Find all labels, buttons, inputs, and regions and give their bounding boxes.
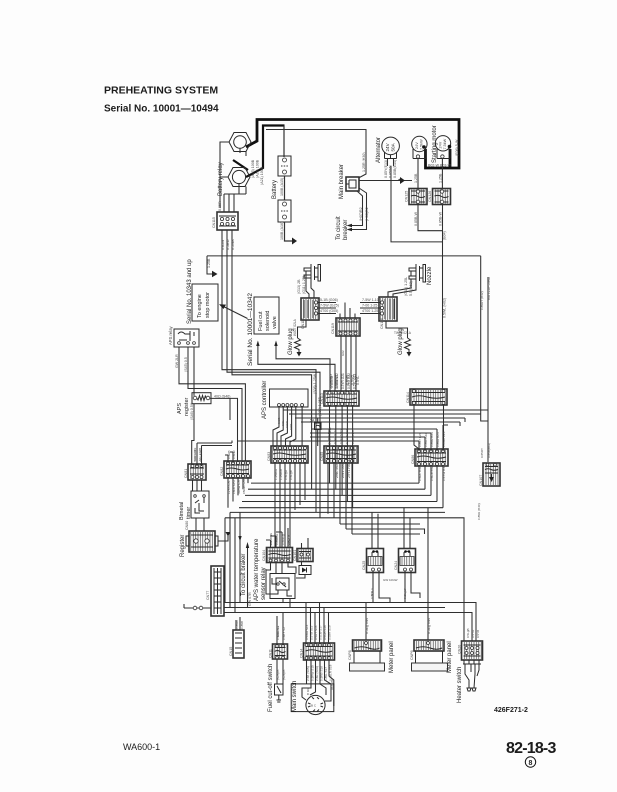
- to circuit breaker arrow bottom: [247, 546, 249, 608]
- svg-text:0.85R B24: 0.85R B24: [436, 432, 440, 447]
- svg-text:CN20: CN20: [458, 645, 462, 654]
- wire CN104 pins to relay: [266, 562, 296, 594]
- svg-text:0.5LW S17: 0.5LW S17: [319, 625, 323, 640]
- annotation arrow to stop motor box: [222, 306, 248, 319]
- svg-text:24V: 24V: [415, 142, 419, 149]
- svg-text:(G11) 1.25L: (G11) 1.25L: [302, 275, 306, 294]
- svg-text:0.85RY: 0.85RY: [480, 448, 484, 458]
- connector CN24 relay: [394, 549, 416, 573]
- svg-text:Meter panel: Meter panel: [447, 641, 453, 673]
- svg-text:7-5W 1-10: 7-5W 1-10: [362, 298, 379, 302]
- wire CN126 down long: [442, 205, 444, 391]
- wire CN117 right pins: [318, 303, 337, 314]
- wire relay to CN115: [224, 194, 246, 212]
- svg-text:(S08) 1.25W: (S08) 1.25W: [313, 373, 317, 394]
- svg-text:Meter panel: Meter panel: [389, 641, 395, 673]
- battery cell 1: [278, 156, 291, 176]
- wire CN116 bottom to glow plug right: [386, 321, 408, 338]
- wire top serial bus into controller zone: [229, 398, 231, 420]
- wire CN86 to CN114 vertical: [419, 466, 443, 508]
- svg-text:Main switch: Main switch: [292, 681, 298, 712]
- svg-text:50A: 50A: [391, 142, 396, 151]
- svg-text:CNP6: CNP6: [410, 650, 414, 660]
- svg-text:CN25: CN25: [362, 561, 366, 570]
- wire CN81 down to bimetal: [193, 480, 202, 491]
- svg-text:GW 07R: GW 07R: [248, 592, 252, 606]
- svg-text:0.5B S14Y: 0.5B S14Y: [351, 429, 355, 444]
- connector CN119: [331, 318, 360, 336]
- bimetal timer: [191, 491, 209, 518]
- wire thick bus battery relay to battery: [246, 126, 285, 178]
- svg-text:0.5WR S14: 0.5WR S14: [305, 624, 309, 640]
- svg-text:7.5kW: 7.5kW: [443, 138, 447, 149]
- svg-text:PREHEATING SYSTEM: PREHEATING SYSTEM: [104, 85, 218, 97]
- connector CN117: [301, 298, 319, 329]
- glow plug right: [405, 338, 412, 357]
- svg-text:To circuit: To circuit: [336, 216, 342, 240]
- svg-text:0.85L B22: 0.85L B22: [424, 433, 428, 447]
- starting motor M2: [435, 136, 451, 159]
- svg-text:(S45) 0.5: (S45) 0.5: [184, 357, 188, 372]
- svg-text:82-18-3: 82-18-3: [506, 740, 556, 757]
- svg-text:APS: APS: [177, 403, 183, 414]
- circled 8: [525, 757, 535, 767]
- svg-text:B C: B C: [311, 704, 317, 708]
- svg-text:1.25B: 1.25B: [438, 173, 442, 183]
- wire between cells: [284, 176, 286, 200]
- svg-text:CN24: CN24: [394, 561, 398, 570]
- connector CN20: [458, 641, 483, 660]
- fuel cut-off switch: [275, 684, 284, 702]
- svg-text:stop motor: stop motor: [205, 292, 211, 318]
- svg-text:1.25WB: 1.25WB: [279, 469, 283, 480]
- svg-text:(S25) B: (S25) B: [276, 670, 280, 681]
- svg-text:CN104: CN104: [262, 550, 266, 561]
- svg-text:Nozzle: Nozzle: [427, 266, 433, 285]
- svg-text:Serial No. 10001—10342: Serial No. 10001—10342: [247, 293, 254, 366]
- wire nozzle left to CN117: [306, 271, 309, 298]
- svg-text:CN119: CN119: [331, 323, 335, 334]
- svg-text:0.85W: 0.85W: [221, 239, 225, 250]
- APS register box: [192, 393, 211, 404]
- svg-text:0.5R: 0.5R: [289, 423, 293, 430]
- svg-text:Register: Register: [180, 535, 186, 557]
- svg-text:0.85BrR: 0.85BrR: [275, 533, 279, 545]
- svg-text:Main breaker: Main breaker: [339, 164, 345, 199]
- svg-text:CN115: CN115: [212, 217, 216, 228]
- svg-text:APS water temperature: APS water temperature: [254, 538, 260, 601]
- svg-text:16RL GrR: 16RL GrR: [232, 479, 236, 494]
- wire battery drop: [283, 126, 285, 158]
- svg-text:To engine: To engine: [197, 294, 203, 318]
- connector CN125: [405, 189, 428, 205]
- connector CN126: [428, 189, 451, 205]
- alternator G1: [382, 137, 400, 158]
- svg-text:CN107: CN107: [479, 475, 483, 486]
- wire CN15 up: [236, 617, 240, 630]
- nozzle left: [304, 264, 321, 282]
- wire battery to ground: [285, 222, 293, 241]
- wire register to ground: [218, 536, 228, 541]
- svg-text:0.85B: 0.85B: [240, 621, 244, 629]
- main breaker MB: [346, 177, 359, 191]
- connector CN113: [320, 391, 359, 406]
- svg-text:0.5YB S15: 0.5YB S15: [310, 625, 314, 640]
- svg-text:0.85R (B40): 0.85R (B40): [477, 503, 481, 520]
- svg-text:0.5W S11Y: 0.5W S11Y: [333, 429, 337, 444]
- svg-text:0.85B(E14): 0.85B(E14): [393, 160, 397, 178]
- wire into CN81 top: [197, 441, 232, 467]
- svg-text:CN80: CN80: [185, 521, 189, 530]
- wire CN116 left pins: [360, 303, 381, 314]
- svg-text:0.85R: 0.85R: [218, 201, 222, 211]
- wire CNP6 riser: [427, 603, 429, 641]
- wire second right vertical: [487, 277, 489, 421]
- meter panel CNP6: [410, 640, 448, 671]
- svg-text:Glow plug: Glow plug: [398, 328, 404, 355]
- svg-text:0.5Y S13Y: 0.5Y S13Y: [345, 429, 349, 444]
- svg-text:CN116: CN116: [380, 318, 384, 329]
- svg-text:(S09) 1.25B: (S09) 1.25B: [318, 396, 322, 416]
- svg-text:(E06) 5-W: (E06) 5-W: [455, 139, 459, 156]
- diode box under CN101: [299, 566, 311, 575]
- to engine stop motor box: [192, 284, 218, 321]
- svg-text:2.5B (S05): 2.5B (S05): [306, 666, 310, 681]
- svg-text:0.5G S10Y: 0.5G S10Y: [339, 429, 343, 444]
- svg-text:0.5Lg GW: 0.5Lg GW: [365, 617, 369, 634]
- svg-text:0.5LgB: 0.5LgB: [289, 470, 293, 480]
- svg-text:Fuel cut-off switch: Fuel cut-off switch: [268, 664, 274, 712]
- svg-text:0.85L S17: 0.85L S17: [324, 667, 328, 681]
- wire nozzle right to CN116: [388, 271, 411, 297]
- connector CN107: [479, 463, 500, 486]
- svg-text:1.25R (H30): 1.25R (H30): [362, 152, 366, 172]
- svg-text:1.25B: 1.25B: [207, 258, 211, 268]
- connector CN82: [220, 461, 251, 478]
- connector CN86: [411, 449, 448, 466]
- wire CN85 verticals down: [328, 463, 352, 534]
- svg-text:(S26) B: (S26) B: [282, 670, 286, 681]
- svg-text:40Ω (S46): 40Ω (S46): [214, 394, 230, 398]
- svg-text:(H08)R2: (H08)R2: [365, 207, 369, 221]
- wire horizontal upper rows right: [238, 410, 489, 441]
- APS controller box: [270, 389, 309, 407]
- svg-text:0.85Y(E13): 0.85Y(E13): [384, 160, 388, 178]
- svg-text:0.85B-W: 0.85B-W: [439, 211, 443, 226]
- fuse 5A: [310, 419, 321, 430]
- svg-text:CN15: CN15: [229, 647, 233, 656]
- svg-text:5-1B (G06): 5-1B (G06): [320, 298, 338, 302]
- svg-text:Bimetal: Bimetal: [179, 502, 185, 520]
- svg-text:S1R L03: S1R L03: [193, 450, 197, 462]
- svg-text:1.25WR: 1.25WR: [274, 468, 278, 480]
- connector CN114: [406, 389, 447, 405]
- wire register down: [192, 404, 194, 464]
- svg-text:CN126: CN126: [428, 191, 432, 202]
- wire CN117 bottom to glow plug: [298, 320, 307, 338]
- svg-text:5.5 (B62): 5.5 (B62): [409, 281, 413, 296]
- wire controller pins down: [273, 407, 302, 447]
- svg-text:GW 2LR: GW 2LR: [175, 354, 179, 368]
- svg-text:0.5WL (H02): 0.5WL (H02): [443, 298, 447, 318]
- svg-text:0.85BrW: 0.85BrW: [269, 533, 273, 545]
- battery cell 2: [278, 200, 291, 222]
- svg-text:0.5RB S16: 0.5RB S16: [320, 666, 324, 681]
- wire bus verticals from above: [225, 512, 240, 566]
- svg-text:timer: timer: [186, 507, 192, 519]
- svg-text:0.5R S12Y: 0.5R S12Y: [327, 429, 331, 444]
- svg-text:0.5RL B31: 0.5RL B31: [418, 466, 422, 481]
- wire CN125 down and join: [418, 205, 443, 231]
- svg-text:GW 10GW: GW 10GW: [383, 578, 398, 582]
- wire register right: [210, 398, 238, 461]
- svg-text:CN81: CN81: [184, 469, 188, 478]
- svg-text:BATTERY 0.85R: BATTERY 0.85R: [487, 276, 491, 300]
- wire CN115 down to center (3 runs): [222, 230, 316, 512]
- svg-text:0.85W: 0.85W: [235, 620, 239, 629]
- battery relay R2 hexagon: [228, 168, 250, 187]
- wire alternator down: [388, 159, 443, 242]
- svg-text:CN82: CN82: [220, 467, 224, 476]
- wire bottom bus lines: [224, 603, 476, 642]
- wire label cluster below CN14: [306, 664, 333, 681]
- svg-text:0.5YL G23: 0.5YL G23: [353, 374, 357, 389]
- wire APS relay leads: [179, 347, 245, 461]
- svg-text:CN86: CN86: [411, 455, 415, 464]
- svg-text:Serial No. 10001—10494: Serial No. 10001—10494: [104, 104, 219, 115]
- wire CN14 down to main switch: [302, 660, 334, 706]
- wire thick bus battery to starting motor: [246, 120, 459, 169]
- svg-text:0.85G B23: 0.85G B23: [430, 432, 434, 447]
- wire vertical bundle to CN14: [306, 603, 329, 644]
- connector CN81: [184, 464, 206, 480]
- nozzle right: [409, 264, 426, 283]
- ground alternator line: [400, 177, 405, 184]
- svg-text:2.5R (S06): 2.5R (S06): [315, 666, 319, 681]
- main switch box: [291, 684, 334, 715]
- svg-text:CN85: CN85: [320, 452, 324, 461]
- svg-text:APS relay: APS relay: [168, 325, 173, 345]
- svg-text:0.85B(B41): 0.85B(B41): [487, 443, 491, 458]
- svg-text:0.5RLg: 0.5RLg: [287, 535, 291, 545]
- APS relay box: [168, 325, 199, 347]
- wire CN113 down bundle: [330, 406, 353, 508]
- wire motor2 to CN126: [441, 158, 443, 188]
- svg-text:Glow plug: Glow plug: [288, 328, 294, 355]
- svg-text:(A24) 100B: (A24) 100B: [256, 159, 260, 178]
- svg-text:2W1 500Y: 2W1 500Y: [341, 461, 345, 478]
- svg-text:(A25) 100B: (A25) 100B: [251, 159, 255, 178]
- connector CN85: [320, 446, 358, 463]
- svg-text:0.85B-W: 0.85B-W: [414, 211, 418, 226]
- wire CN82 down: [228, 478, 248, 508]
- svg-text:(G13) 2B: (G13) 2B: [297, 279, 301, 294]
- svg-text:0.5WB: 0.5WB: [231, 239, 235, 250]
- svg-text:0.85W B25: 0.85W B25: [442, 431, 446, 447]
- svg-text:0.5LgB: 0.5LgB: [466, 628, 470, 638]
- wire CN83 down bundle: [275, 463, 305, 547]
- svg-text:2WL 502Y: 2WL 502Y: [335, 461, 339, 478]
- svg-text:CN11: CN11: [269, 649, 273, 658]
- wire bus right branch down to CN107: [481, 256, 488, 462]
- svg-text:0.5LW: 0.5LW: [232, 450, 236, 459]
- svg-text:0.5RW S15: 0.5RW S15: [311, 665, 315, 681]
- svg-text:Starting motor: Starting motor: [432, 125, 438, 163]
- wire breaker out to ground line: [359, 180, 412, 182]
- svg-text:CN125: CN125: [405, 191, 409, 202]
- connector CN115: [212, 212, 238, 230]
- connector CN104: [262, 548, 293, 563]
- wire thick starting motor 2 stub: [449, 149, 452, 168]
- svg-text:(S46) 0.5Y: (S46) 0.5Y: [190, 402, 194, 420]
- svg-text:0.85W S12: 0.85W S12: [335, 373, 339, 389]
- svg-text:100B (A16): 100B (A16): [280, 222, 284, 240]
- wire arrow B fuel cut: [276, 344, 330, 391]
- wire glow bus over CN119: [340, 303, 355, 319]
- svg-text:0.5YR G21: 0.5YR G21: [341, 373, 345, 389]
- wire relay to bus: [283, 599, 290, 608]
- connector CN83: [267, 446, 308, 463]
- svg-text:To circuit braker: To circuit braker: [241, 554, 247, 596]
- svg-text:12YB GrL: 12YB GrL: [227, 480, 231, 494]
- wire relay left links: [220, 142, 246, 208]
- meter panel CNP8: [348, 640, 385, 671]
- svg-text:0.5BY S2: 0.5BY S2: [282, 627, 286, 640]
- battery relay R2 circle: [232, 170, 245, 183]
- wire breaker to circuit breaker arrows: [352, 188, 367, 230]
- connector CN14: [300, 643, 335, 660]
- svg-text:24V: 24V: [439, 141, 443, 148]
- sensor relay box: [270, 574, 295, 599]
- svg-text:0.5GB B32: 0.5GB B32: [430, 466, 434, 481]
- svg-text:29Y1 R6BY: 29Y1 R6BY: [347, 459, 351, 478]
- wire CN104 tops up: [271, 528, 289, 548]
- svg-text:0.5GB S18: 0.5GB S18: [323, 625, 327, 640]
- wire motor1 to CN125: [417, 158, 419, 188]
- svg-text:B02-W B03-W: B02-W B03-W: [428, 164, 452, 168]
- svg-text:0.5WR S1: 0.5WR S1: [276, 626, 280, 640]
- glow plug left: [295, 338, 302, 357]
- ground battery: [292, 238, 297, 245]
- svg-text:WA600-1: WA600-1: [123, 742, 160, 752]
- svg-text:(A21) 100R: (A21) 100R: [260, 166, 264, 185]
- connector CN116: [379, 297, 397, 329]
- starting motor M1: [412, 136, 427, 158]
- svg-text:31BW GrY: 31BW GrY: [237, 479, 241, 494]
- wire CN77 left stub connector: [184, 607, 211, 609]
- connector CN11: [269, 644, 288, 659]
- svg-text:(H07)R2: (H07)R2: [359, 207, 363, 221]
- svg-text:24V: 24V: [385, 142, 390, 151]
- svg-text:7-5W (G25): 7-5W (G25): [320, 304, 339, 308]
- wire fuse down: [317, 418, 319, 446]
- svg-text:0.5BR S19: 0.5BR S19: [328, 625, 332, 640]
- wire CN25 CN24 bottoms to bus: [373, 571, 420, 603]
- svg-text:solenoid: solenoid: [265, 311, 271, 332]
- svg-text:S1L T04: S1L T04: [199, 450, 203, 462]
- svg-text:100B (A15): 100B (A15): [280, 178, 284, 196]
- svg-text:CN77: CN77: [206, 591, 210, 600]
- wire horizontal bundle rows: [248, 483, 425, 489]
- wire CNP8 riser: [365, 603, 367, 641]
- battery relay R1 circle: [234, 136, 247, 149]
- svg-text:0.5Lg: 0.5Lg: [370, 591, 374, 599]
- wire CN11 down to fuel cutoff switch: [277, 659, 283, 684]
- wire CN119 down to CN113: [341, 336, 356, 391]
- svg-text:0.5Lg GW: 0.5Lg GW: [427, 617, 431, 634]
- svg-text:Heater switch: Heater switch: [457, 667, 463, 703]
- svg-text:G02: G02: [341, 350, 345, 356]
- ground left: [212, 271, 218, 278]
- svg-text:0.5LgW: 0.5LgW: [403, 588, 407, 599]
- svg-text:426F271-2: 426F271-2: [494, 707, 528, 714]
- svg-text:05GW GrB: 05GW GrB: [242, 479, 246, 494]
- svg-text:breaker: breaker: [343, 220, 349, 240]
- svg-text:CN101: CN101: [293, 550, 297, 561]
- svg-text:0.5RB: 0.5RB: [227, 450, 231, 459]
- svg-text:CN83: CN83: [267, 452, 271, 461]
- svg-text:B R1: B R1: [306, 688, 310, 695]
- heater switch glyph: [463, 660, 481, 691]
- svg-text:(B04): (B04): [443, 231, 447, 240]
- wire CN80 up from bimetal: [196, 518, 204, 531]
- connector CN101: [293, 549, 313, 562]
- svg-text:4T00 (G05): 4T00 (G05): [320, 309, 338, 313]
- svg-text:0.85Y B21: 0.85Y B21: [418, 432, 422, 447]
- svg-text:0.5RY S16: 0.5RY S16: [314, 625, 318, 640]
- svg-text:Alternator: Alternator: [376, 137, 382, 163]
- svg-text:0.5YW B33: 0.5YW B33: [442, 465, 446, 481]
- svg-text:Battery: Battery: [272, 180, 278, 199]
- svg-text:CNP8: CNP8: [348, 650, 352, 660]
- svg-text:0.5BW: 0.5BW: [226, 239, 230, 250]
- wire main horizontal bus: [207, 255, 481, 257]
- svg-text:0.5WLg: 0.5WLg: [281, 534, 285, 545]
- svg-text:valve: valve: [272, 316, 278, 329]
- wire right bundle verticals: [427, 508, 429, 640]
- svg-text:CN114: CN114: [406, 392, 410, 403]
- register CN80: [185, 521, 218, 552]
- wire CN82 top feeds: [225, 452, 233, 463]
- svg-text:0.5YB: 0.5YB: [476, 630, 480, 638]
- connector CN25 relay: [362, 549, 384, 573]
- wire bus left end to ground: [207, 256, 212, 274]
- svg-text:0.5YR: 0.5YR: [471, 629, 475, 638]
- wire CN11 up: [277, 613, 283, 645]
- svg-text:0.85RY (B42): 0.85RY (B42): [480, 291, 484, 310]
- wire thin top bus to main breaker: [266, 130, 366, 179]
- svg-text:ACC BR: ACC BR: [330, 678, 334, 690]
- svg-text:0.5YG G22: 0.5YG G22: [347, 373, 351, 389]
- svg-text:8: 8: [529, 760, 533, 767]
- svg-text:0.85R S13: 0.85R S13: [329, 374, 333, 389]
- svg-text:APS controller: APS controller: [262, 381, 268, 419]
- wire CN101 top up: [302, 538, 309, 549]
- wire CN25 CN24 tops up: [372, 508, 410, 549]
- svg-text:0.5LgR: 0.5LgR: [284, 469, 288, 480]
- wire CN101 down: [296, 562, 305, 578]
- fuel cut solenoid valve box: [254, 297, 279, 334]
- wire arrow A fuel cut: [258, 344, 335, 391]
- svg-text:CN14: CN14: [300, 649, 304, 658]
- svg-text:0.85WB: 0.85WB: [389, 165, 393, 178]
- svg-text:Fuel cut: Fuel cut: [258, 311, 264, 331]
- svg-text:0.5YL: 0.5YL: [356, 376, 360, 385]
- svg-text:4T00 1-25: 4T00 1-25: [362, 309, 378, 313]
- connector CN77: [206, 566, 224, 616]
- svg-text:Battery relay: Battery relay: [218, 162, 224, 196]
- battery relay R1 hexagon: [229, 133, 251, 152]
